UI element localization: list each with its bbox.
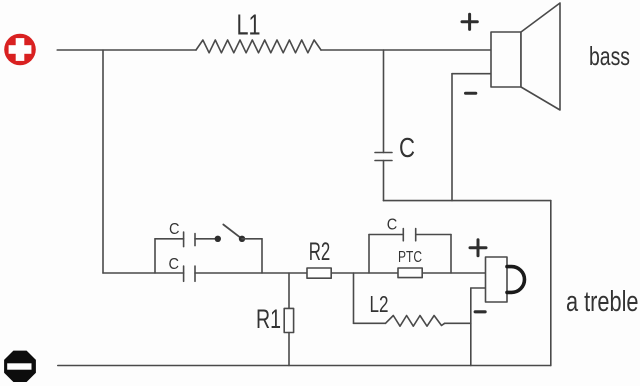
wire right vertical	[550, 201, 552, 366]
wire top rail left	[57, 49, 196, 51]
wire horizontal under capacitor to right vertical	[384, 200, 551, 202]
wire top rail right	[321, 49, 491, 51]
capacitor C (midrange)	[375, 50, 415, 201]
svg-text:L2: L2	[370, 291, 389, 317]
svg-text:a treble: a treble	[566, 286, 639, 318]
wire bottom rail	[58, 365, 551, 367]
svg-text:C: C	[399, 132, 415, 163]
wire left vertical from top rail to lower rail	[102, 50, 104, 273]
label + (treble)	[470, 240, 486, 256]
wire from L2 to treble minus vertical	[445, 322, 471, 324]
wire parallel-pair right vertical	[261, 239, 263, 273]
wire from switch to right vertical	[242, 238, 262, 240]
svg-text:L1: L1	[237, 10, 261, 42]
wire treble minus vertical to bottom rail	[470, 288, 472, 366]
wire L2 branch vertical	[353, 273, 355, 323]
speaker treble	[486, 257, 525, 302]
wire top branch lead-in	[155, 238, 184, 240]
capacitor C (bottom of parallel pair)	[169, 256, 196, 282]
wire lower rail segment D	[422, 272, 485, 274]
resistor R2	[307, 238, 331, 278]
svg-text:PTC: PTC	[398, 249, 422, 266]
svg-text:R1: R1	[256, 304, 281, 334]
inductor L1	[196, 40, 321, 53]
wire lower rail segment A	[103, 272, 184, 274]
label + (bass)	[462, 14, 477, 29]
svg-text:C: C	[387, 217, 398, 234]
wire bass minus vertical	[451, 74, 453, 201]
label - (bass)	[466, 92, 476, 95]
svg-text:C: C	[169, 221, 180, 238]
label - (treble)	[475, 310, 485, 313]
svg-text:R2: R2	[309, 238, 331, 266]
wire from capacitor to switch	[195, 238, 218, 240]
svg-text:C: C	[169, 256, 180, 273]
inductor L2	[370, 291, 445, 326]
negative terminal	[4, 351, 36, 382]
PTC thermistor	[398, 249, 422, 278]
wire L2 branch horizontal	[354, 322, 386, 324]
wire treble minus horizontal	[471, 287, 486, 289]
resistor R1	[256, 273, 294, 366]
capacitor C (PTC branch)	[369, 217, 451, 273]
wire parallel-pair left vertical	[154, 239, 156, 273]
wire bass minus horizontal	[452, 73, 491, 75]
positive terminal	[4, 34, 36, 66]
speaker bass	[491, 3, 560, 110]
wire lower rail segment B	[195, 272, 307, 274]
capacitor C (top of parallel pair)	[169, 221, 195, 247]
wire lower rail segment C	[331, 272, 398, 274]
switch S1	[215, 225, 246, 243]
svg-text:bass: bass	[589, 41, 630, 71]
